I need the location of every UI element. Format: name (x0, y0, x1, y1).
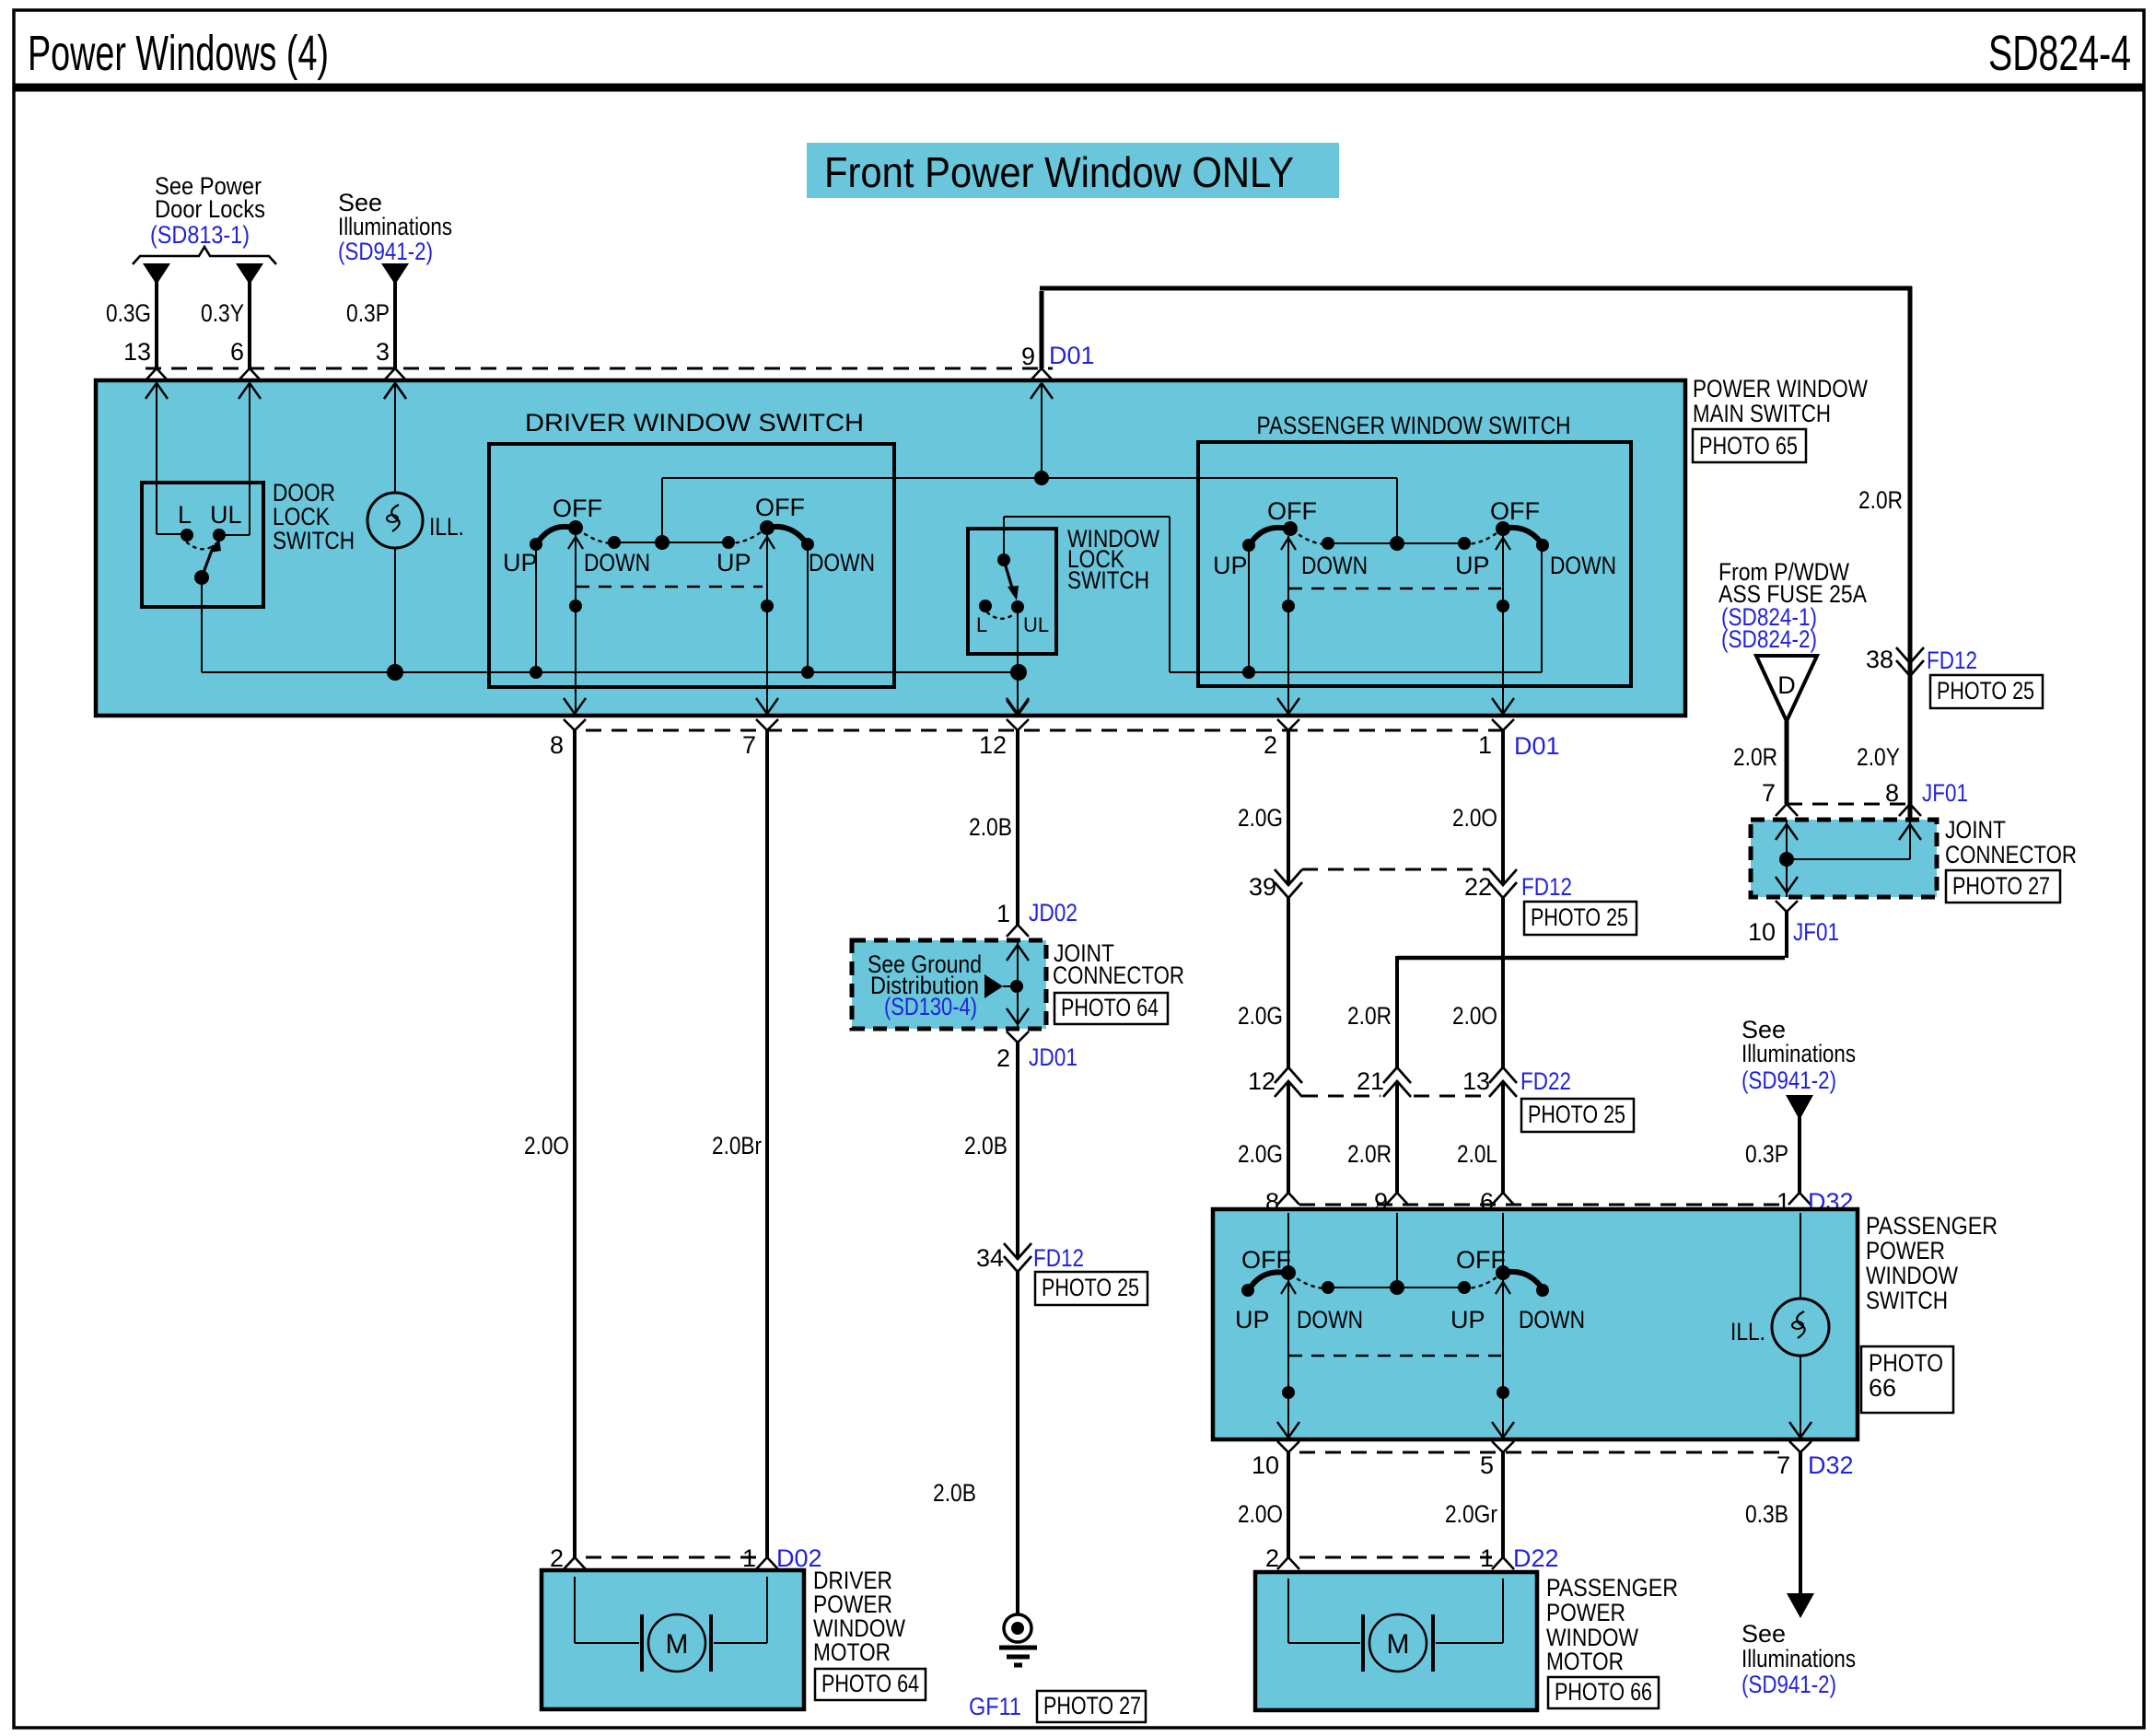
connector JF01 pin 7 (1762, 779, 1798, 816)
svg-text:GF11: GF11 (969, 1693, 1021, 1720)
feed arrow into wire 0.3Y (236, 263, 263, 285)
svg-text:OFF: OFF (553, 495, 602, 522)
svg-text:2.0G: 2.0G (1238, 1002, 1283, 1030)
svg-text:Illuminations: Illuminations (1741, 1645, 1856, 1672)
wire window lock feed (1004, 517, 1542, 679)
svg-text:Illuminations: Illuminations (338, 213, 452, 240)
wire 2.0Y (1857, 676, 1910, 804)
wire UL contact to pin 12 (1007, 607, 1029, 716)
reference See Illuminations (SD941-2) top (338, 189, 452, 265)
label PASSENGER POWER WINDOW SWITCH / PHOTO 66 (1861, 1212, 1998, 1413)
svg-text:Illuminations: Illuminations (1741, 1040, 1856, 1067)
connector D01 dashed line (146, 367, 1053, 370)
title separator rule (14, 84, 2144, 92)
lamp ILL. (main switch illumination) (367, 380, 464, 672)
driver switch internal wires (536, 535, 808, 716)
svg-text:JD01: JD01 (1029, 1043, 1077, 1071)
lamp ILL. (passenger switch illumination) (1730, 1213, 1829, 1438)
svg-text:PASSENGER: PASSENGER (1866, 1212, 1998, 1240)
connector D02 pin 2 (550, 1544, 586, 1590)
svg-text:JF01: JF01 (1922, 779, 1968, 807)
svg-text:FD12: FD12 (1033, 1244, 1084, 1272)
sheet number SD824-4 (1988, 26, 2131, 81)
svg-text:13: 13 (123, 338, 151, 366)
svg-text:2.0O: 2.0O (1238, 1500, 1283, 1528)
connector D32 pin 1 entry (1776, 1188, 1854, 1229)
wire 2.0R column lower (1347, 1081, 1397, 1193)
label DRIVER POWER WINDOW MOTOR / PHOTO 64 (813, 1567, 926, 1700)
svg-text:JOINT: JOINT (1945, 816, 2006, 844)
svg-text:MOTOR: MOTOR (1546, 1648, 1624, 1675)
svg-text:ILL.: ILL. (1730, 1318, 1765, 1346)
driver switch rocker contacts (503, 494, 875, 577)
svg-text:UP: UP (1455, 552, 1490, 579)
connector D32 pin 7 exit (1776, 1441, 1854, 1479)
svg-text:PASSENGER: PASSENGER (1546, 1574, 1678, 1602)
svg-text:POWER: POWER (1866, 1237, 1945, 1264)
svg-text:(SD941-2): (SD941-2) (1741, 1066, 1836, 1094)
svg-text:12: 12 (1248, 1067, 1276, 1095)
svg-text:2.0Gr: 2.0Gr (1445, 1500, 1497, 1528)
svg-text:2: 2 (550, 1544, 564, 1572)
svg-text:SWITCH: SWITCH (1866, 1287, 1948, 1314)
wire 2.0B to ground (933, 1272, 1018, 1614)
svg-text:0.3P: 0.3P (346, 299, 390, 327)
svg-text:22: 22 (1464, 873, 1492, 901)
power window main switch box (96, 380, 1685, 716)
reference See Power Door Locks (SD813-1) (150, 172, 265, 249)
wire driver switch center to pin 9 net (662, 471, 1397, 543)
svg-text:OFF: OFF (1267, 497, 1317, 525)
title Power Windows (4) (28, 26, 329, 81)
label JOINT CONNECTOR / PHOTO 27 (right) (1945, 816, 2077, 903)
svg-text:10: 10 (1748, 918, 1776, 946)
svg-text:0.3Y: 0.3Y (201, 299, 244, 327)
svg-text:(SD130-4): (SD130-4) (884, 993, 977, 1020)
connector D22 dashed line (1299, 1556, 1492, 1559)
wire 0.3B illumination return (1745, 1452, 1814, 1618)
svg-text:FD22: FD22 (1520, 1067, 1571, 1095)
svg-text:8: 8 (550, 731, 564, 759)
svg-text:L: L (178, 501, 192, 529)
svg-text:PASSENGER WINDOW SWITCH: PASSENGER WINDOW SWITCH (1257, 412, 1571, 439)
svg-text:UP: UP (1213, 552, 1248, 579)
svg-text:D01: D01 (1049, 342, 1095, 369)
svg-text:2.0R: 2.0R (1347, 1140, 1392, 1168)
fuse feed triangle D (1756, 656, 1817, 721)
svg-text:1: 1 (1478, 731, 1492, 759)
svg-text:PHOTO: PHOTO (1869, 1349, 1943, 1377)
svg-text:0.3P: 0.3P (1745, 1140, 1788, 1168)
wire 0.3P lower (1745, 1116, 1800, 1193)
svg-text:JF01: JF01 (1793, 918, 1839, 946)
ground GF11 (969, 1614, 1146, 1722)
connector JF01 pin 10 (1748, 901, 1839, 946)
wire 2.0L column lower (1457, 1081, 1503, 1193)
wire 2.0O column upper (1452, 730, 1503, 884)
feed arrow into wire 0.3G (143, 263, 170, 285)
connector D01 bottom dashed line (586, 730, 1560, 760)
svg-text:3: 3 (376, 338, 390, 366)
reference See Illuminations (SD941-2) bottom (1741, 1620, 1856, 1698)
connector D01 pin 12 exit (979, 698, 1029, 759)
connector D32 pin 10 exit (1252, 1441, 1299, 1479)
svg-text:21: 21 (1357, 1067, 1384, 1095)
label POWER WINDOW MAIN SWITCH / PHOTO 65 (1693, 375, 1868, 462)
svg-text:66: 66 (1869, 1374, 1896, 1402)
svg-text:DOWN: DOWN (1301, 552, 1368, 579)
label WINDOW LOCK SWITCH (1067, 525, 1159, 594)
passenger power switch internal wires (1277, 1213, 1514, 1438)
svg-text:(SD941-2): (SD941-2) (1741, 1671, 1836, 1698)
svg-text:38: 38 (1866, 646, 1893, 673)
connector FD12 dashed line (1302, 868, 1490, 871)
svg-text:WINDOW: WINDOW (1866, 1262, 1958, 1289)
banner Front Power Window ONLY (807, 143, 1339, 198)
svg-text:2.0R: 2.0R (1347, 1002, 1392, 1030)
svg-text:2.0O: 2.0O (1452, 1002, 1497, 1030)
svg-text:UP: UP (1235, 1306, 1270, 1334)
svg-text:UL: UL (1023, 613, 1049, 636)
svg-text:POWER WINDOW: POWER WINDOW (1693, 375, 1868, 402)
svg-text:OFF: OFF (1490, 497, 1540, 525)
wire 2.0G column lower (1238, 1081, 1288, 1193)
svg-text:10: 10 (1252, 1451, 1279, 1479)
svg-text:PHOTO 25: PHOTO 25 (1528, 1101, 1625, 1128)
svg-text:PHOTO 27: PHOTO 27 (1952, 872, 2050, 900)
svg-text:2.0G: 2.0G (1238, 1140, 1283, 1168)
connector D02 dashed line (586, 1556, 756, 1559)
svg-text:JD02: JD02 (1029, 899, 1077, 926)
reference See Illuminations (SD941-2) middle (1741, 1016, 1856, 1094)
svg-text:DOWN: DOWN (809, 549, 875, 577)
svg-text:MOTOR: MOTOR (813, 1638, 891, 1666)
svg-text:9: 9 (1021, 343, 1035, 370)
svg-text:FD12: FD12 (1521, 873, 1572, 901)
connector D01 pin 9 (1021, 342, 1095, 399)
label JOINT CONNECTOR / PHOTO 64 (1053, 939, 1184, 1024)
svg-text:6: 6 (230, 338, 244, 366)
svg-text:13: 13 (1462, 1067, 1490, 1095)
wire 0.3G pin 13 (106, 281, 157, 368)
svg-text:PHOTO 25: PHOTO 25 (1042, 1274, 1139, 1301)
label PASSENGER WINDOW SWITCH (1257, 412, 1571, 439)
svg-text:OFF: OFF (755, 494, 805, 521)
svg-text:2.0B: 2.0B (969, 813, 1012, 841)
svg-text:Power Windows (4): Power Windows (4) (28, 26, 329, 81)
svg-text:UP: UP (716, 549, 751, 577)
svg-text:DOWN: DOWN (584, 549, 650, 577)
svg-text:See: See (1741, 1620, 1786, 1648)
connector JF01 pin 8 (1885, 779, 1968, 816)
wire 2.0O column middle (1452, 898, 1503, 1068)
svg-text:D32: D32 (1808, 1451, 1854, 1479)
svg-text:DRIVER WINDOW SWITCH: DRIVER WINDOW SWITCH (525, 409, 864, 437)
joint connector JD (ground distribution) (852, 940, 1046, 1029)
svg-text:2.0L: 2.0L (1457, 1140, 1497, 1168)
svg-text:CONNECTOR: CONNECTOR (1945, 841, 2077, 868)
svg-text:2: 2 (1265, 1544, 1279, 1572)
wire 2.0G column middle (1238, 898, 1288, 1068)
svg-text:39: 39 (1249, 873, 1276, 901)
passenger switch internal wires (1249, 536, 1510, 716)
svg-text:2: 2 (1264, 731, 1277, 759)
feed arrow into wire 0.3P lower (1786, 1095, 1813, 1120)
svg-text:PHOTO 27: PHOTO 27 (1043, 1692, 1141, 1719)
wire 2.0B lower (964, 1043, 1018, 1258)
svg-text:2.0R: 2.0R (1858, 486, 1903, 514)
passenger power switch rocker contacts (1235, 1246, 1585, 1334)
svg-text:0.3B: 0.3B (1745, 1500, 1788, 1528)
wire 2.0Gr passenger (1445, 1452, 1503, 1557)
wire pin 9 vertical inside box (1041, 383, 1043, 478)
connector D32 pin 6 entry (1480, 1188, 1514, 1229)
svg-text:PHOTO 64: PHOTO 64 (1061, 994, 1159, 1021)
svg-text:ILL.: ILL. (429, 513, 464, 541)
svg-text:(SD813-1): (SD813-1) (150, 221, 250, 249)
brace over door-lock feed wires (133, 247, 276, 264)
wire 2.0B upper (969, 730, 1018, 925)
door lock switch (142, 380, 263, 672)
connector D22 pin 2 (1265, 1544, 1299, 1590)
svg-text:DOWN: DOWN (1519, 1306, 1585, 1334)
svg-text:CONNECTOR: CONNECTOR (1053, 961, 1184, 989)
svg-text:D: D (1777, 671, 1796, 699)
motor M (passenger) (1288, 1579, 1503, 1672)
connector JD01 pin 2 (996, 1031, 1077, 1072)
svg-text:0.3G: 0.3G (106, 299, 151, 327)
connector FD12 pin 22 (1464, 869, 1637, 935)
svg-text:2.0B: 2.0B (964, 1132, 1008, 1159)
svg-text:5: 5 (1480, 1451, 1494, 1479)
connector D32 bottom dashed line (1299, 1451, 1789, 1454)
svg-text:UP: UP (503, 549, 538, 577)
bus wire inside main switch (202, 664, 1027, 681)
passenger switch rocker contacts (1213, 497, 1616, 579)
window lock switch (968, 529, 1056, 654)
svg-text:7: 7 (742, 731, 756, 759)
wire 2.0O driver up (524, 730, 575, 1557)
motor M (driver) (575, 1577, 767, 1672)
svg-text:SD824-4: SD824-4 (1988, 26, 2131, 81)
svg-text:Front Power Window ONLY: Front Power Window ONLY (824, 148, 1294, 196)
svg-text:2.0O: 2.0O (524, 1132, 569, 1159)
svg-text:2: 2 (996, 1044, 1010, 1072)
svg-text:D22: D22 (1513, 1544, 1559, 1572)
svg-text:POWER: POWER (1546, 1599, 1625, 1626)
svg-text:1: 1 (996, 900, 1010, 927)
svg-text:2.0B: 2.0B (933, 1479, 976, 1507)
passenger power window switch box (1213, 1209, 1858, 1439)
connector D01 pin 8 exit (550, 698, 586, 759)
connector D01 pin 2 exit (1264, 698, 1299, 759)
connector FD12 pin 39 (1249, 869, 1302, 901)
connector FD22 pins 12 21 13 (1248, 1067, 1634, 1132)
svg-text:PHOTO 66: PHOTO 66 (1555, 1678, 1652, 1706)
connector D32 pin 8 entry (1265, 1188, 1299, 1229)
label From P/WDW ASS FUSE 25A (1718, 558, 1867, 653)
connector FD12 pin 34 (976, 1243, 1147, 1305)
svg-text:2.0G: 2.0G (1238, 804, 1283, 832)
svg-text:UP: UP (1450, 1306, 1485, 1334)
svg-text:2.0Y: 2.0Y (1857, 743, 1900, 771)
wire 2.0R fuse feed (1733, 721, 1787, 804)
label DOOR LOCK SWITCH (273, 479, 355, 554)
svg-text:(SD824-2): (SD824-2) (1721, 625, 1817, 653)
label PASSENGER POWER WINDOW MOTOR / PHOTO 66 (1546, 1574, 1678, 1708)
connector D01 pin 3 entry (384, 368, 406, 399)
wire 2.0G column upper (1238, 730, 1288, 884)
connector D32 pin 9 entry (1374, 1188, 1408, 1229)
svg-text:MAIN SWITCH: MAIN SWITCH (1693, 400, 1831, 427)
svg-text:PHOTO 64: PHOTO 64 (821, 1670, 919, 1697)
svg-text:12: 12 (979, 731, 1007, 759)
label DRIVER WINDOW SWITCH (525, 409, 864, 437)
svg-text:D01: D01 (1514, 732, 1560, 760)
svg-text:PHOTO 25: PHOTO 25 (1937, 677, 2034, 705)
connector D02 pin 1 (742, 1544, 822, 1590)
svg-text:2.0O: 2.0O (1452, 804, 1497, 832)
svg-text:OFF: OFF (1241, 1246, 1291, 1274)
svg-text:SWITCH: SWITCH (273, 527, 355, 554)
driver window switch box (489, 444, 894, 687)
svg-text:DOWN: DOWN (1550, 552, 1616, 579)
feed arrow into wire 0.3P (381, 263, 409, 285)
svg-text:PHOTO 65: PHOTO 65 (1699, 432, 1798, 460)
connector FD12 pin 38 (1866, 646, 2043, 708)
svg-text:SWITCH: SWITCH (1067, 566, 1149, 594)
joint connector JF01 (1751, 820, 1937, 897)
svg-text:34: 34 (976, 1244, 1004, 1272)
passenger window switch box (1198, 442, 1631, 686)
svg-text:M: M (1387, 1629, 1410, 1660)
svg-text:DOWN: DOWN (1297, 1306, 1363, 1334)
wire 0.3P pin 3 (346, 281, 395, 368)
connector FD22 dashed line (1302, 1095, 1490, 1098)
svg-text:M: M (666, 1629, 689, 1660)
svg-text:PHOTO 25: PHOTO 25 (1531, 903, 1628, 931)
wire 2.0R from JF01 pin 10 (1347, 912, 1787, 1068)
wire 2.0Br driver down (712, 730, 767, 1557)
connector D01 pin 13 entry (146, 368, 168, 399)
wire 2.0O passenger (1238, 1452, 1288, 1557)
svg-text:Door Locks: Door Locks (155, 195, 265, 223)
connector JF01 dashed line (1787, 803, 1910, 806)
svg-text:7: 7 (1776, 1451, 1790, 1479)
svg-text:FD12: FD12 (1927, 647, 1977, 674)
svg-text:7: 7 (1762, 779, 1776, 807)
svg-text:L: L (976, 613, 987, 636)
svg-text:2.0R: 2.0R (1733, 743, 1777, 771)
connector D01 pin 6 entry (239, 368, 261, 399)
wire 0.3Y pin 6 (201, 281, 250, 368)
connector D32 top dashed line (1299, 1204, 1788, 1206)
connector D01 pin 1 exit (1478, 698, 1514, 759)
connector D01 pin 7 exit (742, 698, 778, 759)
svg-text:(SD941-2): (SD941-2) (338, 238, 433, 265)
svg-text:UL: UL (210, 501, 242, 529)
connector JD02 pin 1 (996, 899, 1077, 937)
wire 2.0R feed from pin 9 (1040, 286, 1912, 885)
svg-text:2.0Br: 2.0Br (712, 1132, 762, 1159)
connector D22 pin 1 (1480, 1544, 1559, 1590)
svg-text:OFF: OFF (1456, 1246, 1506, 1274)
connector D32 pin 5 exit (1480, 1441, 1514, 1479)
driver power window motor box (542, 1570, 804, 1709)
passenger power window motor box (1255, 1572, 1537, 1710)
